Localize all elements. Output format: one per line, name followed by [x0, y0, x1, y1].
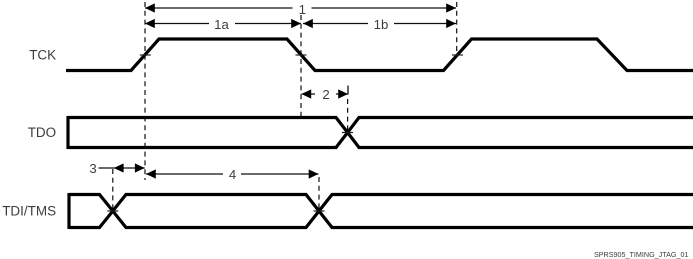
svg-text:2: 2: [322, 87, 329, 102]
svg-text:1: 1: [299, 2, 306, 17]
svg-text:TCK: TCK: [29, 48, 56, 63]
svg-text:3: 3: [89, 161, 96, 176]
svg-text:1a: 1a: [214, 17, 229, 32]
svg-text:TDO: TDO: [28, 125, 57, 140]
svg-text:TDI/TMS: TDI/TMS: [2, 204, 56, 219]
svg-text:SPRS905_TIMING_JTAG_01: SPRS905_TIMING_JTAG_01: [594, 250, 689, 259]
svg-text:1b: 1b: [374, 17, 389, 32]
svg-text:4: 4: [229, 167, 236, 182]
